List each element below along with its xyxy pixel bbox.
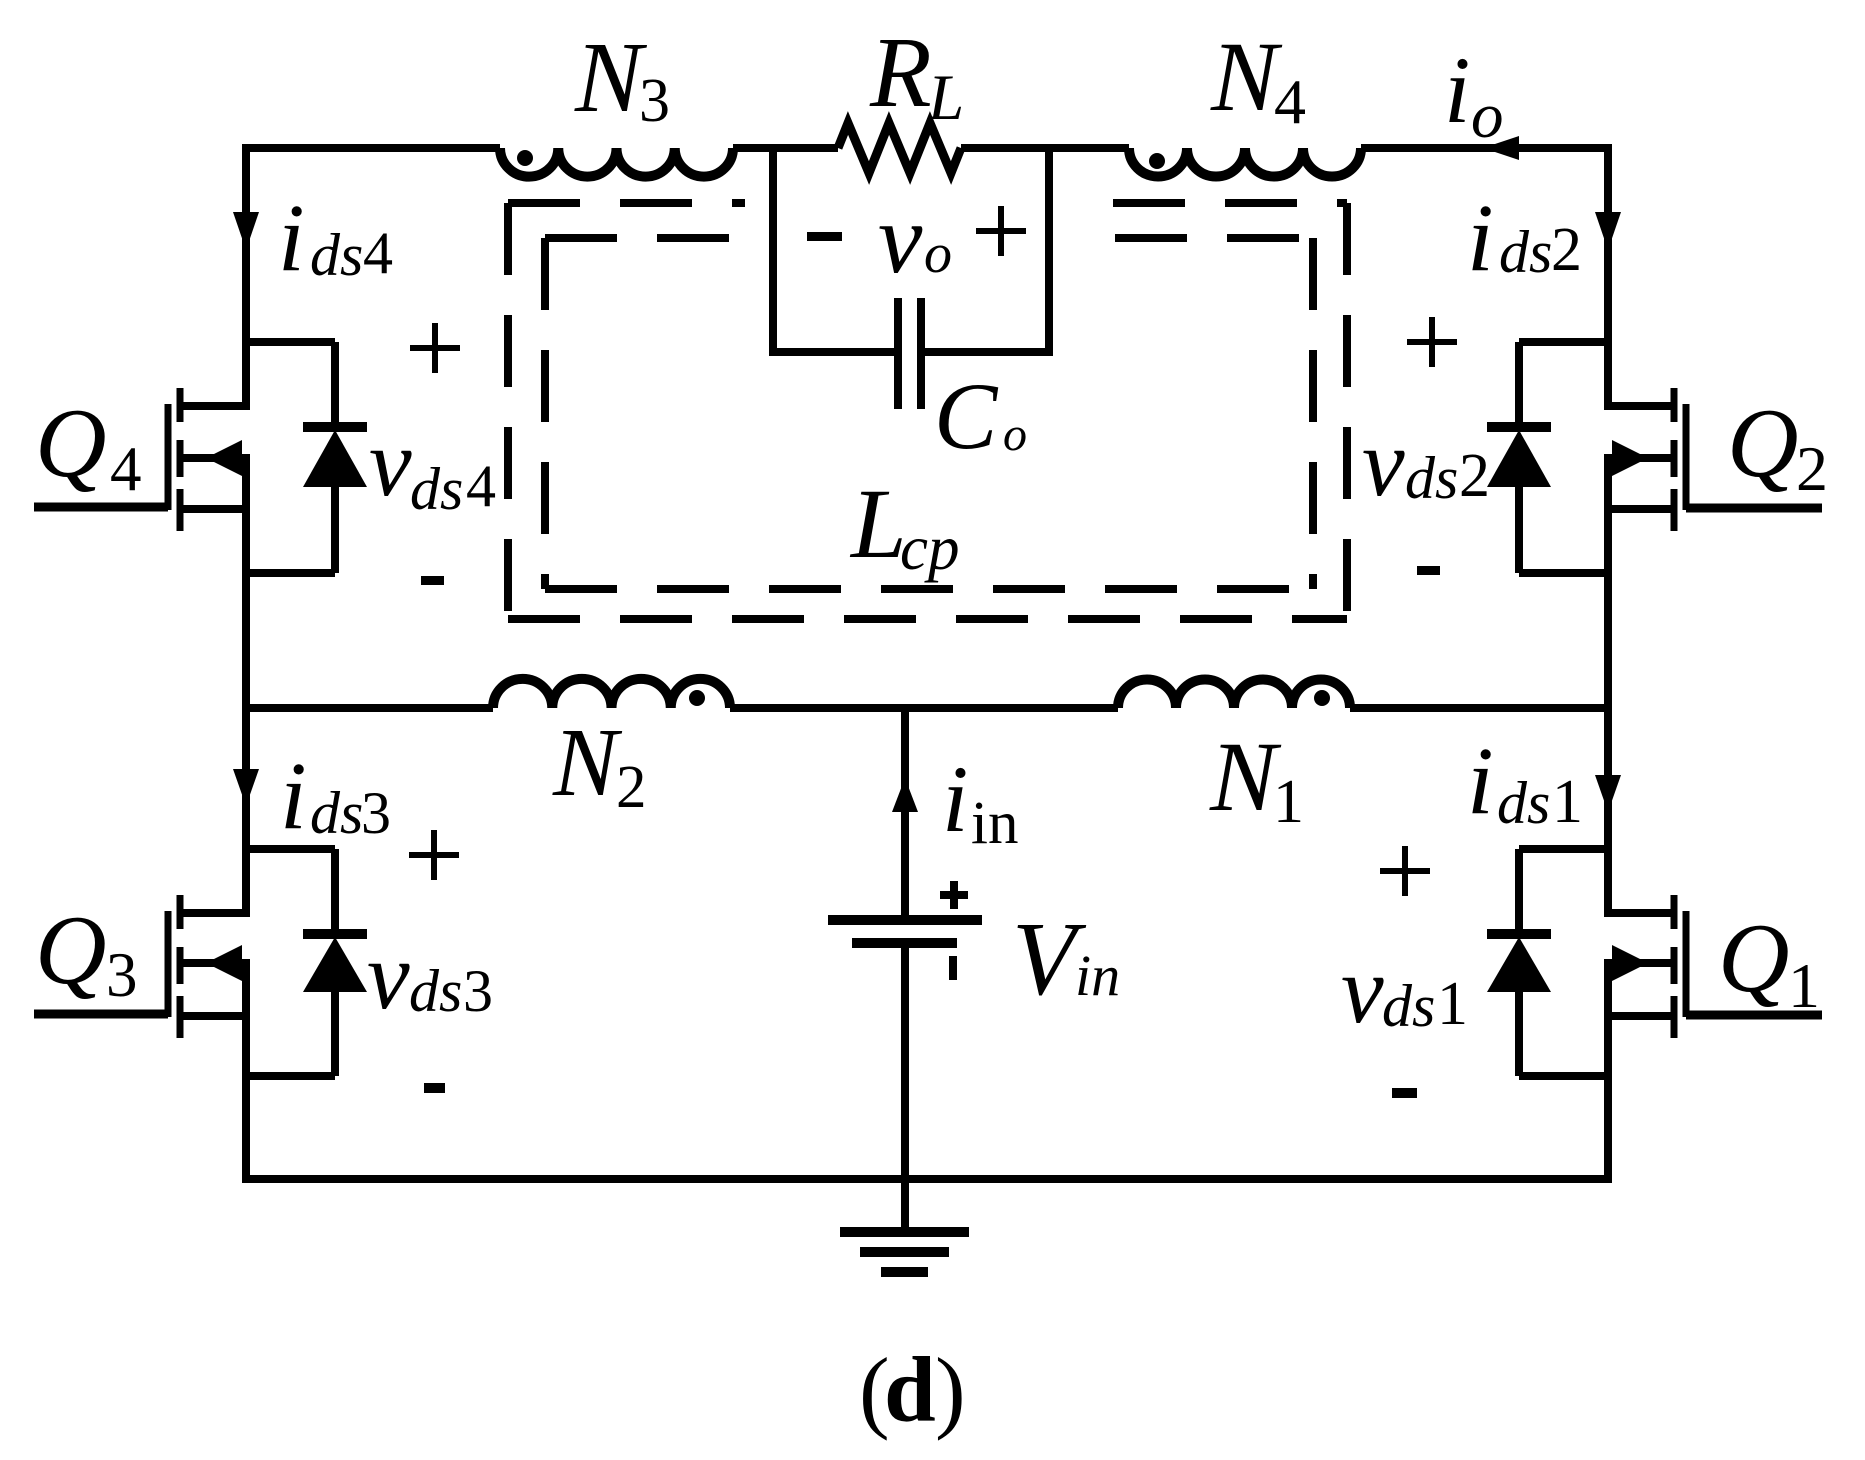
svg-text:v: v bbox=[367, 922, 410, 1029]
wire middle bus left segment bbox=[246, 704, 493, 712]
label Q1 bbox=[1718, 904, 1820, 1021]
svg-text:v: v bbox=[878, 183, 923, 294]
svg-text:ds: ds bbox=[1499, 219, 1552, 285]
transistor Q1 gate bar bbox=[1683, 911, 1690, 1017]
core Lcp inner dashed rectangle bbox=[545, 238, 1313, 589]
svg-text:2: 2 bbox=[1796, 433, 1828, 504]
label N2 bbox=[552, 709, 647, 821]
transistor Q4 channel segments bbox=[177, 388, 184, 531]
label Vin bbox=[1012, 900, 1120, 1017]
svg-text:ds: ds bbox=[1405, 445, 1458, 511]
svg-text:in: in bbox=[1075, 943, 1120, 1008]
label ids2 bbox=[1467, 184, 1582, 291]
label ids4 bbox=[278, 184, 393, 291]
svg-text:in: in bbox=[971, 790, 1018, 857]
wire left rail lower bbox=[242, 959, 250, 1183]
svg-text:N: N bbox=[552, 709, 623, 816]
wire left rail middle bbox=[242, 454, 250, 917]
transistor Q4 body lead with arrow bbox=[180, 440, 246, 476]
wire middle bus center segment bbox=[730, 704, 1118, 712]
core Lcp outer dashed rectangle bbox=[508, 203, 1347, 619]
svg-text:Q: Q bbox=[1718, 904, 1790, 1013]
svg-text:4: 4 bbox=[363, 220, 393, 286]
svg-text:1: 1 bbox=[1437, 970, 1468, 1038]
body diode of Q1 bbox=[1487, 849, 1608, 1076]
svg-text:Q: Q bbox=[35, 896, 107, 1005]
svg-text:1: 1 bbox=[1552, 768, 1583, 836]
transistor Q3 body lead with arrow bbox=[180, 945, 246, 981]
svg-text:N: N bbox=[1209, 721, 1282, 832]
svg-text:v: v bbox=[369, 409, 412, 516]
transistor Q1 source lead bbox=[1608, 1012, 1674, 1020]
body diode of Q4 bbox=[246, 342, 367, 573]
label iin bbox=[942, 746, 1018, 857]
label vds2 with polarity bbox=[1362, 317, 1490, 575]
transistor Q1 drain lead bbox=[1608, 909, 1674, 917]
svg-text:d: d bbox=[884, 1339, 936, 1442]
label vds3 with polarity bbox=[367, 830, 493, 1093]
transistor Q2 channel segments bbox=[1671, 388, 1678, 531]
label ids3 bbox=[280, 742, 391, 849]
wire right rail upper bbox=[1604, 144, 1612, 410]
wire bottom rail bbox=[246, 1175, 1608, 1183]
label Q3 bbox=[35, 896, 138, 1010]
winding N3 bbox=[500, 148, 733, 177]
arrow ids4 current direction bbox=[233, 212, 259, 250]
svg-text:o: o bbox=[924, 223, 952, 285]
label Lcp bbox=[849, 468, 959, 583]
wire top rail between N3 and R_L bbox=[733, 144, 838, 152]
label Q4 bbox=[35, 389, 142, 504]
transistor Q4 drain lead bbox=[180, 402, 246, 410]
label N3 bbox=[574, 21, 670, 135]
label Q2 bbox=[1727, 389, 1828, 504]
svg-text:Q: Q bbox=[1727, 389, 1799, 498]
svg-text:L: L bbox=[849, 468, 907, 579]
label RL bbox=[869, 16, 964, 134]
transistor Q2 gate lead bbox=[1686, 504, 1822, 513]
transistor Q2 source lead bbox=[1608, 505, 1674, 513]
svg-text:): ) bbox=[935, 1339, 966, 1441]
svg-text:i: i bbox=[278, 184, 305, 291]
svg-text:3: 3 bbox=[463, 958, 493, 1024]
transistor Q4 gate lead bbox=[34, 503, 168, 512]
transistor Q1 channel segments bbox=[1671, 895, 1678, 1038]
transistor Q1 gate lead bbox=[1686, 1011, 1822, 1020]
svg-text:i: i bbox=[942, 746, 968, 852]
svg-text:i: i bbox=[280, 742, 307, 849]
wire output box bottom right bbox=[925, 348, 1049, 356]
wire output box bottom left bbox=[773, 348, 894, 356]
svg-text:ds: ds bbox=[409, 958, 462, 1024]
svg-text:ds: ds bbox=[410, 456, 463, 522]
battery Vin bbox=[828, 881, 982, 980]
svg-text:1: 1 bbox=[1273, 768, 1304, 836]
svg-text:ds: ds bbox=[1497, 770, 1550, 836]
transistor Q3 gate lead bbox=[34, 1010, 168, 1019]
svg-text:4: 4 bbox=[110, 434, 142, 504]
svg-text:2: 2 bbox=[616, 754, 647, 821]
svg-text:ds: ds bbox=[310, 780, 363, 846]
resistor R_L bbox=[838, 123, 961, 173]
label ids1 bbox=[1467, 727, 1583, 836]
transistor Q2 drain lead bbox=[1608, 402, 1674, 410]
wire output box left bbox=[769, 148, 777, 356]
svg-text:v: v bbox=[1362, 409, 1405, 516]
svg-text:ds: ds bbox=[1382, 973, 1435, 1039]
label N4 bbox=[1210, 21, 1306, 137]
label vo with polarity bbox=[807, 183, 1026, 294]
wire right rail lower bbox=[1604, 959, 1612, 1183]
svg-text:4: 4 bbox=[1274, 66, 1306, 137]
wire output box right bbox=[1045, 148, 1053, 356]
winding N2 bbox=[493, 679, 730, 708]
wire right rail middle bbox=[1604, 454, 1612, 917]
arrow io current direction bbox=[1483, 136, 1519, 160]
winding N4 bbox=[1129, 148, 1361, 177]
label Co bbox=[934, 363, 1027, 469]
transistor Q1 body lead with arrow bbox=[1608, 945, 1674, 981]
wire top rail left segment bbox=[242, 144, 500, 152]
wire middle bus right segment bbox=[1350, 704, 1608, 712]
wire input stem lower bbox=[901, 943, 909, 1232]
arrow ids2 current direction bbox=[1595, 212, 1621, 250]
transistor Q3 source lead bbox=[180, 1012, 246, 1020]
winding N1 bbox=[1118, 680, 1350, 709]
body diode of Q3 bbox=[246, 849, 367, 1076]
svg-text:L: L bbox=[927, 62, 964, 134]
arrow ids1 current direction bbox=[1595, 775, 1621, 812]
transistor Q4 source lead bbox=[180, 505, 246, 513]
wire input stem upper bbox=[901, 708, 909, 920]
label io bbox=[1444, 37, 1504, 152]
label N1 bbox=[1209, 721, 1304, 836]
caption (d) bbox=[859, 1339, 966, 1442]
svg-text:2: 2 bbox=[1459, 442, 1490, 510]
transistor Q2 gate bar bbox=[1683, 404, 1690, 510]
svg-text:i: i bbox=[1444, 37, 1470, 143]
label vds1 with polarity bbox=[1341, 846, 1468, 1098]
arrow iin current direction bbox=[892, 778, 918, 812]
body diode of Q2 bbox=[1487, 342, 1608, 573]
svg-text:v: v bbox=[1341, 936, 1384, 1043]
svg-text:o: o bbox=[1471, 80, 1504, 152]
wire top rail between R_L and N4 bbox=[961, 144, 1129, 152]
capacitor Co bbox=[898, 298, 921, 409]
svg-text:N: N bbox=[1210, 21, 1283, 132]
wire top rail right segment bbox=[1361, 144, 1612, 152]
svg-text:i: i bbox=[1467, 727, 1494, 834]
svg-text:N: N bbox=[574, 21, 648, 133]
label vds4 with polarity bbox=[369, 323, 496, 585]
svg-text:2: 2 bbox=[1551, 216, 1582, 284]
transistor Q3 gate bar bbox=[165, 911, 172, 1017]
svg-text:3: 3 bbox=[106, 940, 138, 1010]
svg-text:R: R bbox=[869, 16, 932, 128]
svg-text:4: 4 bbox=[466, 453, 496, 519]
svg-text:cp: cp bbox=[900, 513, 959, 583]
ground bbox=[840, 1232, 969, 1272]
svg-text:Q: Q bbox=[35, 389, 107, 498]
arrow ids3 current direction bbox=[233, 769, 259, 806]
transistor Q4 gate bar bbox=[165, 404, 172, 510]
svg-text:ds: ds bbox=[310, 222, 363, 288]
transistor Q3 channel segments bbox=[177, 895, 184, 1038]
svg-text:o: o bbox=[1003, 408, 1027, 461]
svg-text:1: 1 bbox=[1788, 950, 1820, 1021]
wire left rail upper bbox=[242, 144, 250, 410]
svg-text:3: 3 bbox=[639, 67, 670, 135]
transistor Q2 body lead with arrow bbox=[1608, 440, 1674, 476]
svg-text:C: C bbox=[934, 363, 999, 469]
svg-text:i: i bbox=[1467, 184, 1494, 291]
transistor Q3 drain lead bbox=[180, 909, 246, 917]
svg-text:3: 3 bbox=[361, 780, 391, 846]
